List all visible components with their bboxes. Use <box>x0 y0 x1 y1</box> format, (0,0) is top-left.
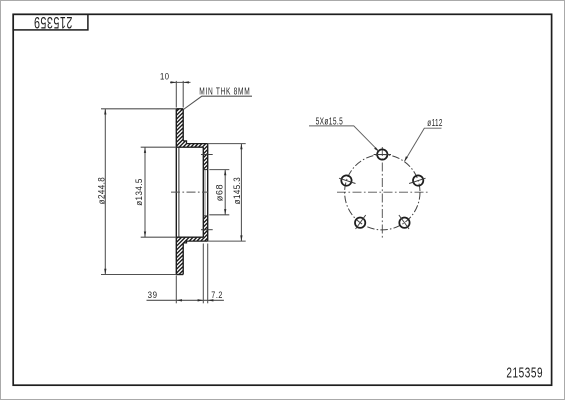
dim 10 ext left <box>175 81 177 108</box>
rim inner visible edge <box>178 147 180 237</box>
svg-text:39: 39 <box>148 289 158 300</box>
bolt circle dia112 <box>345 155 420 230</box>
arrow 134.5 down <box>144 232 146 238</box>
dim 39 ext left <box>175 276 177 304</box>
hole 3 upper-right <box>413 175 423 185</box>
bore bottom edge <box>203 215 207 217</box>
leader dia112 arrow <box>404 156 408 162</box>
hole 3 radial mark <box>409 178 425 183</box>
arrow 134.5 up <box>144 147 146 153</box>
hole 2 radial mark <box>339 178 355 183</box>
dim texts <box>96 71 251 300</box>
svg-text:215359: 215359 <box>33 14 72 32</box>
leader MIN THK <box>183 96 252 109</box>
dim 244.8 ext bottom <box>101 274 176 276</box>
arrow 68 down <box>224 209 226 215</box>
flange top step edge <box>183 141 208 144</box>
hole 2 upper-left <box>341 175 351 185</box>
hub wall outer face <box>207 144 209 242</box>
dim 134.5 line <box>144 147 146 237</box>
svg-text:10: 10 <box>160 71 169 82</box>
rim right face upper <box>182 109 184 141</box>
dim 68 ext bottom <box>209 214 229 216</box>
hole 1 tangential mark <box>374 154 391 156</box>
dim 134.5 ext bottom <box>141 236 177 238</box>
arrowheads <box>104 81 242 301</box>
hub wall inner face <box>202 147 204 237</box>
hatch fill of section cut <box>175 107 209 276</box>
bore top edge <box>203 169 207 171</box>
arrow 244.8 up <box>104 109 106 115</box>
arrow 10 right <box>183 81 189 83</box>
rim left face <box>175 109 177 275</box>
hole 4 lower-left <box>355 218 365 228</box>
arrow 68 up <box>224 170 226 176</box>
dim 244.8 ext top <box>101 108 176 110</box>
svg-text:215359: 215359 <box>506 365 543 381</box>
arrow 145.3 up <box>240 144 242 150</box>
flange top underside <box>176 146 203 148</box>
svg-text:ø134.5: ø134.5 <box>133 178 144 206</box>
dim 134.5 ext top <box>141 146 177 148</box>
hole 5 radial mark <box>399 215 409 229</box>
dim 68 ext top <box>209 169 229 171</box>
arrow 39 left <box>176 299 182 301</box>
hole 1 top <box>377 149 387 159</box>
arrow 39 right <box>198 299 204 301</box>
dim 68 line <box>224 170 226 215</box>
leader 5X15.5 arrow <box>374 147 379 152</box>
dim 244.8 line <box>104 109 106 275</box>
dim 7.2 ext right <box>207 244 209 304</box>
arrow 10 left <box>171 81 177 83</box>
hub bore inner edge line <box>204 170 206 216</box>
rim right face lower <box>182 243 184 275</box>
flange bottom underside <box>183 241 208 243</box>
leader 5X15.5 <box>309 126 379 151</box>
bolt hole axis tick lower <box>201 229 213 231</box>
svg-text:ø244.8: ø244.8 <box>96 177 107 205</box>
dim 145.3 ext bottom <box>208 240 246 242</box>
flange bottom top edge <box>176 236 203 238</box>
section center line <box>171 191 209 193</box>
dim 10 line <box>170 81 191 83</box>
dim 39/7.2 line <box>147 299 224 301</box>
svg-text:ø112: ø112 <box>427 118 443 129</box>
svg-text:5Xø15.5: 5Xø15.5 <box>316 115 344 127</box>
dim 145.3 ext top <box>208 143 246 145</box>
leader dia112 <box>405 128 442 161</box>
bolt hole axis tick upper <box>201 154 213 156</box>
dim 7.2 ext left <box>202 244 204 304</box>
dim 145.3 line <box>240 144 242 242</box>
svg-text:7.2: 7.2 <box>211 290 223 300</box>
arrow 145.3 down <box>240 235 242 241</box>
svg-text:ø145.3: ø145.3 <box>231 177 242 205</box>
hole 4 radial mark <box>356 215 366 229</box>
dim 10 ext right <box>182 81 184 108</box>
rim top edge <box>176 108 183 110</box>
hole 5 lower-right <box>399 218 409 228</box>
arrow 244.8 down <box>104 269 106 275</box>
arrow 7.2 right <box>208 299 214 301</box>
rim bottom edge <box>176 274 183 276</box>
svg-text:MIN THK 8MM: MIN THK 8MM <box>199 85 250 97</box>
title box top-left <box>13 14 88 30</box>
vertical center line <box>381 147 383 238</box>
horizontal center line <box>337 191 429 193</box>
svg-text:ø68: ø68 <box>214 184 224 201</box>
